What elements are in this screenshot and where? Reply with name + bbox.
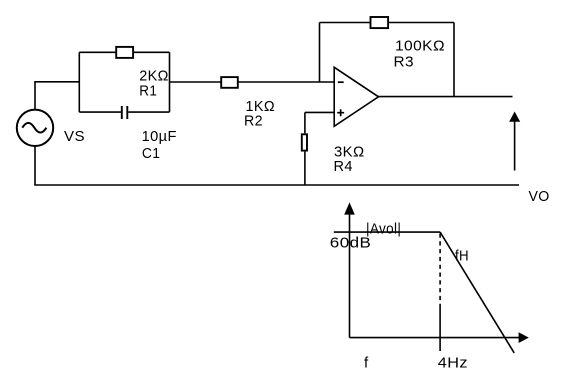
gain slope [440, 232, 514, 353]
wire [35, 82, 79, 110]
wire [319, 23, 321, 83]
svg-text:R1: R1 [139, 83, 157, 100]
wire [379, 96, 513, 98]
op-amp U1 [334, 67, 378, 126]
svg-text:fH: fH [455, 247, 469, 264]
svg-text:100KΩ: 100KΩ [395, 37, 445, 54]
wire [35, 146, 519, 185]
wire [78, 52, 80, 112]
svg-text:4Hz: 4Hz [438, 355, 468, 372]
svg-text:VS: VS [64, 128, 85, 145]
wire [304, 152, 306, 185]
resistor R3 [371, 17, 389, 28]
dashed line 4Hz [439, 234, 441, 305]
wire [453, 23, 455, 97]
svg-text:60dB: 60dB [330, 235, 372, 252]
wire [305, 111, 334, 113]
arrow VO [509, 112, 520, 171]
wire [320, 22, 455, 24]
svg-text:10µF: 10µF [142, 128, 177, 145]
capacitor C1 [122, 106, 128, 119]
svg-text:f: f [364, 355, 369, 372]
resistor R2 [221, 77, 238, 88]
wire [169, 52, 171, 112]
wire [79, 51, 169, 53]
axis horizontal [350, 332, 529, 343]
wire [304, 112, 306, 133]
axis vertical [344, 202, 355, 337]
gain flat line [334, 231, 440, 233]
voltage source VS [17, 110, 53, 146]
svg-text:C1: C1 [142, 145, 161, 162]
wire [170, 81, 335, 83]
svg-text:R3: R3 [394, 53, 415, 70]
svg-text:R4: R4 [334, 158, 353, 175]
tick 4Hz [439, 304, 441, 351]
resistor R4 [302, 134, 307, 150]
resistor R1 [116, 47, 133, 58]
wire [128, 111, 169, 113]
svg-text:VO: VO [529, 188, 550, 205]
wire [79, 111, 121, 113]
svg-text:R2: R2 [244, 113, 263, 130]
